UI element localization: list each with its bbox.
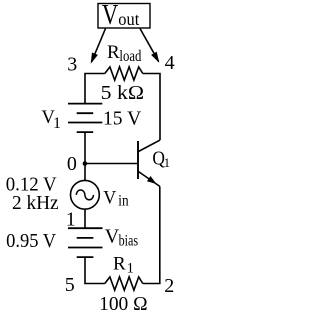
svg-text:R: R: [107, 42, 120, 63]
battery V1 plate 1 long positive: [68, 103, 102, 105]
transistor Q1 emitter lead: [138, 172, 159, 187]
wire R1 to node 2 corner up to emitter: [143, 186, 160, 283]
wire node 0 to transistor base: [85, 163, 138, 165]
node 0 junction dot: [83, 161, 88, 166]
svg-text:4: 4: [165, 52, 175, 74]
V_out left arrow shaft: [92, 29, 106, 63]
V_out right arrow shaft: [140, 29, 159, 62]
svg-text:V: V: [105, 225, 120, 247]
svg-text:1: 1: [53, 115, 61, 132]
svg-text:in: in: [118, 192, 129, 209]
svg-text:3: 3: [67, 53, 77, 75]
battery V_bias plate 4 short negative: [77, 256, 94, 258]
wire top rail right segment (R_load to node 4 corner, down to collector elbow): [143, 74, 160, 141]
svg-text:bias: bias: [119, 233, 139, 250]
svg-text:0: 0: [67, 153, 77, 175]
svg-text:5 kΩ: 5 kΩ: [101, 82, 144, 104]
svg-text:15 V: 15 V: [103, 108, 142, 130]
V_out right arrowhead: [151, 52, 159, 63]
battery V1 plate 4 short negative: [77, 131, 94, 133]
resistor R_load zigzag: [105, 67, 143, 80]
battery V_bias plate 3 long: [68, 247, 103, 249]
svg-text:0.95 V: 0.95 V: [6, 230, 57, 252]
V_out box rectangle: [98, 4, 150, 29]
svg-text:V: V: [103, 188, 116, 209]
svg-text:1: 1: [127, 261, 135, 277]
svg-text:R: R: [113, 253, 126, 274]
battery V_bias plate 1 long positive: [68, 227, 103, 229]
transistor Q1 emitter arrowhead: [147, 176, 157, 184]
svg-text:2 kHz: 2 kHz: [12, 192, 59, 214]
svg-text:out: out: [118, 9, 139, 29]
wire V_bias negative down to node 5 corner: [85, 257, 105, 283]
svg-text:1: 1: [66, 209, 76, 231]
transistor Q1 base bar: [137, 141, 139, 179]
transistor Q1 collector lead: [138, 140, 160, 151]
svg-text:100 Ω: 100 Ω: [99, 293, 148, 313]
svg-text:V: V: [102, 0, 119, 31]
AC source sine wave: [76, 190, 93, 200]
svg-text:1: 1: [164, 156, 170, 170]
wire V1 negative to node 0 to V_in source top: [84, 132, 86, 180]
svg-text:load: load: [119, 48, 141, 65]
svg-text:5: 5: [65, 274, 75, 296]
wire top rail left segment (node 3 to R_load): [85, 74, 105, 104]
V_out left arrowhead: [91, 53, 98, 64]
resistor R1 zigzag: [105, 277, 143, 290]
battery V1 plate 2 short: [77, 112, 94, 114]
wire V_in bottom to V_bias top: [84, 209, 86, 228]
battery V_bias plate 2 short: [77, 237, 94, 239]
battery V1 plate 3 long: [68, 122, 102, 124]
svg-text:2: 2: [164, 275, 174, 297]
AC source V_in circle: [71, 180, 100, 209]
